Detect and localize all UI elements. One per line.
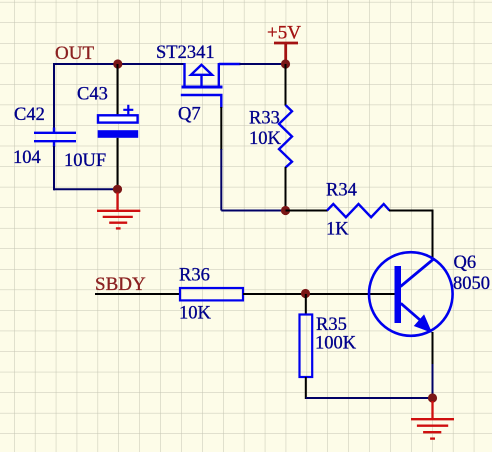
resistor R35 pin top (305, 294, 307, 315)
transistor Q6 NPN (369, 252, 453, 336)
node junction R36/R35 (301, 289, 310, 298)
capacitor C43 pin top (117, 64, 119, 116)
transistor Q7 P-MOSFET (181, 63, 241, 108)
wire R36 to Q6 base (243, 293, 395, 295)
svg-text:R35: R35 (316, 315, 347, 335)
svg-text:R33: R33 (249, 109, 280, 129)
ground symbol right (411, 401, 454, 439)
capacitor C43 pin bottom (117, 138, 119, 190)
resistor R33 pin top (285, 64, 287, 106)
svg-text:+5V: +5V (267, 23, 301, 44)
capacitor C42 (34, 128, 76, 148)
wire R34 to collector corner (389, 211, 433, 260)
node junction under OUT (113, 59, 122, 68)
wire top rail from C42 corner to Q7 source (54, 63, 185, 65)
wire gate row to junction (221, 210, 285, 212)
svg-text:SBDY: SBDY (95, 274, 146, 295)
svg-text:1K: 1K (326, 220, 349, 240)
resistor R34 (327, 204, 390, 217)
svg-text:OUT: OUT (55, 43, 94, 64)
svg-text:R36: R36 (179, 266, 210, 286)
resistor R33 pin bottom (285, 167, 287, 211)
wire Q7 gate down (220, 107, 222, 150)
svg-text:C42: C42 (14, 105, 45, 125)
wire Q7 drain to +5V junction (240, 63, 286, 65)
ground symbol left (97, 193, 140, 229)
power +5V symbol (274, 43, 298, 64)
resistor R35 pin bottom (305, 377, 307, 399)
svg-text:C43: C43 (77, 85, 108, 105)
svg-text:ST2341: ST2341 (156, 43, 215, 63)
wire Q6 emitter pin (432, 332, 434, 365)
node junction R33/R34 (281, 206, 290, 215)
wire SBDY to R36 (95, 293, 181, 295)
node junction bottom-left (113, 185, 122, 194)
wire bottom-left rail (54, 188, 118, 190)
svg-text:10UF: 10UF (64, 151, 106, 171)
resistor R35 (300, 315, 313, 378)
resistor R33 (279, 105, 292, 168)
node junction emitter/ground (428, 393, 437, 402)
svg-text:Q6: Q6 (454, 253, 477, 273)
svg-text:10K: 10K (249, 129, 282, 149)
svg-text:8050: 8050 (453, 274, 490, 294)
wire C42 upper lead (53, 63, 55, 129)
svg-text:Q7: Q7 (178, 105, 201, 125)
capacitor C43 (98, 105, 139, 138)
svg-text:100K: 100K (315, 334, 357, 354)
wire C42 lower lead (53, 146, 55, 190)
node junction under +5V (281, 59, 290, 68)
svg-text:10K: 10K (179, 304, 212, 324)
wire bottom rail to ground junction (306, 397, 433, 399)
wire junction to R34 (286, 210, 328, 212)
svg-text:R34: R34 (326, 181, 357, 201)
resistor R36 (180, 288, 243, 300)
svg-text:104: 104 (13, 148, 41, 168)
